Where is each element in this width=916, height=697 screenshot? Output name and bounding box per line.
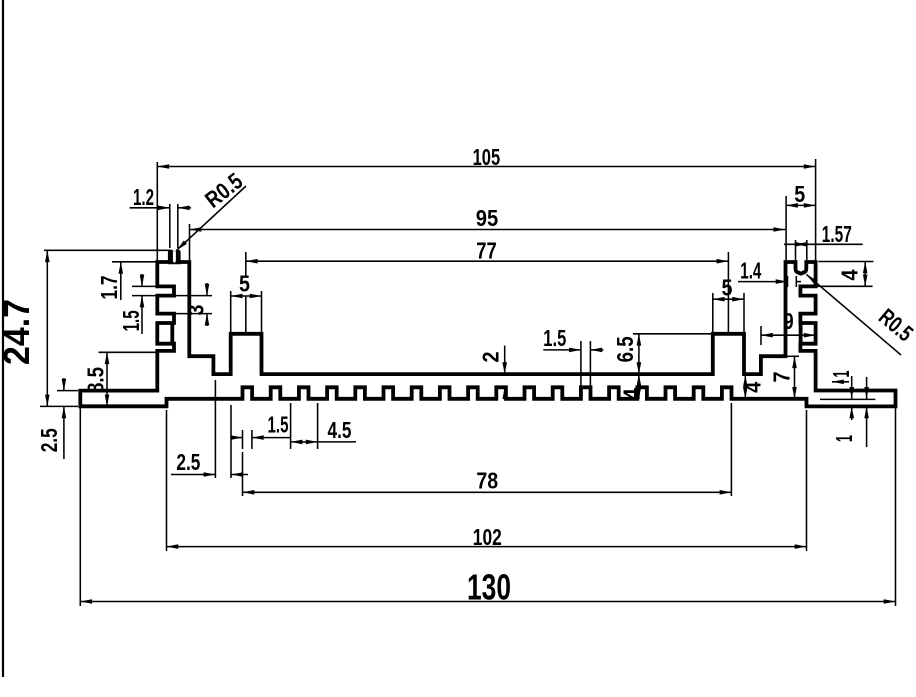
dimension 105 (157, 159, 815, 261)
dimension 2.5 foot thickness (57, 378, 78, 459)
svg-text:2.5: 2.5 (176, 449, 200, 475)
svg-text:2.5: 2.5 (36, 428, 62, 452)
dimension 4 plate thickness (right) (744, 375, 746, 399)
svg-text:4: 4 (619, 388, 645, 400)
svg-text:5: 5 (722, 275, 733, 301)
svg-text:1.5: 1.5 (118, 310, 144, 331)
dimension 24.7 overall height (40, 250, 170, 406)
dimension 4.5 groove pitch (291, 403, 356, 449)
svg-text:130: 130 (467, 567, 511, 608)
dimension 1.5 wall slot height (132, 274, 156, 334)
svg-text:9: 9 (784, 308, 794, 334)
dimension 5 left boss width (231, 291, 262, 332)
dimension 1.7 tab height (112, 262, 156, 300)
dimension 3 slot spacing (175, 283, 212, 326)
leader R0.5 bottom-right (807, 275, 902, 356)
dimension 9 wall span (761, 326, 816, 345)
svg-text:1.5: 1.5 (543, 325, 566, 351)
svg-text:95: 95 (476, 205, 499, 231)
dimension 7 step to bottom (786, 356, 799, 399)
svg-text:8.5: 8.5 (83, 367, 109, 393)
dimension 4 wall top to slot (816, 262, 874, 287)
svg-text:1: 1 (828, 370, 854, 377)
svg-text:1.57: 1.57 (822, 221, 852, 247)
svg-text:1.4: 1.4 (740, 258, 761, 284)
dimension 6.5 boss top to plate top (633, 334, 713, 374)
dimension 95 (190, 196, 787, 261)
svg-text:105: 105 (473, 144, 501, 170)
svg-text:4: 4 (837, 269, 863, 280)
dimension 8.5 (99, 352, 157, 406)
svg-text:24.7: 24.7 (0, 299, 37, 365)
dimension 1 lower right (820, 376, 875, 447)
top tab prongs (left wall screw port) (168, 250, 181, 264)
dimension 102 (167, 410, 807, 551)
dimension 1 upper right (832, 381, 849, 383)
dimension 2.5 bottom (171, 380, 248, 478)
svg-text:3: 3 (183, 305, 209, 316)
svg-text:1: 1 (831, 435, 857, 442)
dimension 5 right boss width (713, 293, 744, 332)
dimension 2 rib top to groove (504, 346, 506, 392)
left wall internal rib line (170, 323, 174, 342)
dimension 77 (246, 252, 729, 332)
svg-text:4.5: 4.5 (328, 417, 352, 443)
right wall internal rib line (799, 323, 803, 342)
dimension 1.5 groove width (center) (543, 341, 603, 387)
svg-text:77: 77 (476, 238, 497, 264)
dimension 1.2 tab width (130, 204, 192, 248)
svg-text:1.5: 1.5 (268, 412, 289, 438)
dimension 1.5 groove width bottom (232, 430, 291, 449)
svg-text:102: 102 (473, 524, 502, 550)
svg-text:5: 5 (239, 271, 250, 297)
dimension 5 right wall width (786, 204, 816, 206)
profile outline (80, 262, 895, 406)
svg-text:1.7: 1.7 (96, 276, 122, 300)
svg-text:1.2: 1.2 (133, 184, 154, 210)
svg-text:7: 7 (769, 372, 795, 383)
leader R0.5 top-left (177, 186, 246, 250)
svg-text:78: 78 (476, 468, 498, 494)
dimension 1.4 (738, 276, 801, 287)
svg-text:4: 4 (740, 382, 766, 393)
dimension 78 (243, 403, 732, 496)
dimension 1.57 notch width (784, 240, 863, 260)
svg-text:6.5: 6.5 (612, 336, 638, 362)
svg-text:2: 2 (478, 352, 504, 363)
drawing frame left border (2, 0, 4, 677)
dimension 4 plate thickness (center) (638, 374, 640, 399)
svg-text:5: 5 (794, 181, 805, 207)
dimension 130 overall width (80, 408, 895, 606)
